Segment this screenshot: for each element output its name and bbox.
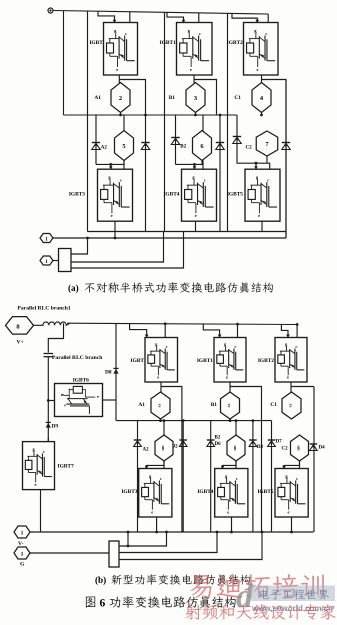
wire emitter branch (b) cell3	[291, 386, 314, 388]
diode A2 (b) left	[137, 421, 139, 532]
svg-text:D4: D4	[319, 446, 326, 451]
wire collector feed IGBT2 (b)	[296, 325, 298, 338]
wire cell3 left vertical (a)	[227, 13, 229, 231]
svg-text:C2: C2	[246, 145, 253, 150]
wire gate feed IGBT2 (b)	[281, 324, 288, 336]
svg-text:un: un	[161, 445, 166, 451]
svg-text:IGBT2: IGBT2	[258, 358, 274, 364]
wire gate feed IGBT	[98, 11, 115, 21]
wire demux out3 (b)	[119, 532, 262, 560]
svg-text:c: c	[234, 344, 236, 349]
node tag un cell2 (b)	[227, 435, 245, 461]
wire gate feed IGBT2	[232, 13, 257, 21]
node input tag 1 lower (a)	[40, 256, 53, 265]
diode B2 (b) left	[210, 421, 212, 532]
svg-text:c: c	[199, 31, 201, 36]
svg-text:C2: C2	[282, 446, 289, 451]
svg-text:IGBT5: IGBT5	[257, 489, 273, 495]
svg-text:IGBT5: IGBT5	[227, 191, 243, 197]
wire demux out2 (b)	[119, 532, 217, 553]
diode A2 (left freewheel cell1)	[95, 115, 97, 164]
diode D2 (b) right	[182, 421, 184, 532]
svg-text:IGBT3: IGBT3	[121, 489, 137, 495]
node tag 3 (gate pulse)	[186, 83, 205, 113]
wire demux riser (b)	[127, 532, 129, 546]
wire IGBT6 out to D8 column	[103, 399, 117, 401]
svg-text:e: e	[190, 67, 192, 72]
wire branch column to bus cell1 (b)	[181, 421, 183, 532]
diode C2 (left freewheel cell3)	[233, 136, 241, 138]
op-amp IGBT5 bottom row (b)	[275, 469, 308, 518]
wire demux out2 (a)	[71, 232, 184, 269]
wire bottom bus L2 (a)	[51, 237, 286, 239]
svg-text:e: e	[256, 67, 258, 72]
wire tag to demux (a)	[71, 238, 88, 254]
op-amp IGBT1 (IGBT block)	[177, 23, 213, 76]
wire emitter IGBT5 to bus (b)	[291, 517, 293, 532]
svg-text:B2: B2	[215, 436, 221, 441]
wire tag7 to IGBT5 gate	[266, 156, 268, 163]
wire emitter branch cell2	[194, 80, 217, 116]
svg-text:c: c	[43, 449, 45, 454]
wire RLC branch drop (b)	[48, 323, 63, 352]
svg-text:B1: B1	[211, 402, 218, 408]
wire right rail (b)	[313, 387, 315, 532]
svg-text:c: c	[166, 344, 168, 349]
svg-text:1: 1	[45, 236, 48, 242]
wire tag to IGBT5 gate (b)	[284, 461, 300, 467]
svg-text:cs: cs	[289, 404, 294, 408]
wire top rail (a)	[54, 11, 269, 15]
op-amp IGBT3 bottom row (b)	[139, 469, 172, 518]
svg-text:e: e	[111, 213, 113, 218]
svg-text:cs: cs	[158, 404, 163, 408]
wire branch column to bus cell2 (b)	[261, 421, 263, 532]
node tag 1 / G (b)	[14, 547, 30, 559]
svg-text:G: G	[20, 562, 25, 568]
svg-text:c: c	[265, 31, 267, 36]
wire collector column IGBT5 (b)	[299, 459, 301, 469]
label Parallel RLC branch	[53, 354, 55, 356]
wire collector feed IGBT2	[267, 14, 269, 22]
svg-text:IGBT2: IGBT2	[227, 40, 243, 46]
svg-text:e: e	[258, 213, 260, 218]
svg-text:IGBT1: IGBT1	[197, 358, 213, 364]
wire emitter IGBT (b)	[160, 382, 162, 393]
svg-text:IGBT: IGBT	[89, 40, 103, 46]
wire tag4 to mid rail	[261, 113, 263, 116]
wire tag3 to mid rail	[195, 113, 197, 116]
wire collector feed IGBT1 (b)	[237, 324, 239, 338]
wire bottom bus L1 (a)	[88, 231, 287, 233]
diode B2 (left freewheel cell2)	[175, 115, 177, 164]
diode D4 (b) right	[310, 443, 318, 445]
svg-text:A1: A1	[138, 402, 145, 408]
wire emitter IGBT1 (b)	[229, 382, 231, 393]
node tag 2 (gate pulse)	[111, 83, 130, 113]
node source tag 8 / V+	[6, 317, 34, 335]
watermark red slogan	[185, 604, 335, 620]
node tag 5 (gate pulse lower)	[123, 115, 125, 169]
capacitor parallel RLC branch	[44, 353, 54, 355]
wire mid-rail L to IGBT5 collector	[237, 115, 270, 169]
node tag 1 / V- (b)	[14, 526, 30, 538]
wire collector feed IGBT1	[198, 13, 200, 23]
wire tag A1 to mid rail (b)	[160, 419, 162, 421]
wire collector feed IGBT (b)	[164, 324, 166, 338]
node tag C1 sensor (b)	[282, 392, 301, 419]
demux block (b)	[109, 541, 119, 567]
svg-text:e: e	[287, 509, 289, 514]
wire tag to IGBT3 gate (b)	[147, 461, 165, 467]
wire emitter IGBT4	[195, 221, 197, 231]
wire emitter branch cell1	[119, 80, 145, 116]
wire collector column IGBT4 (b)	[235, 421, 237, 469]
svg-text:B1: B1	[169, 95, 176, 101]
demux block (a)	[59, 249, 72, 272]
wire emitter IGBT3	[114, 221, 116, 238]
wire lower tag to demux (a)	[53, 260, 59, 262]
node tag 6 (gate pulse lower)	[202, 115, 204, 169]
op-amp IGBT2 (IGBT block)	[244, 23, 279, 76]
wire tag B1 to mid rail (b)	[229, 419, 231, 421]
wire emitter branch cell3	[262, 80, 287, 239]
diode right rail cell3	[282, 142, 290, 144]
wire mid rail (b)	[116, 420, 272, 422]
svg-text:c: c	[295, 344, 297, 349]
diode D7 (b) left	[271, 421, 273, 532]
wire emitter branch (b) cell1	[161, 387, 182, 421]
svg-text:IGBT7: IGBT7	[58, 464, 74, 470]
diode right freewheel cell1	[145, 115, 147, 232]
op-amp IGBT3 (IGBT block)	[98, 169, 133, 221]
wire emitter IGBT3 to bus (b)	[156, 517, 158, 532]
svg-text:e: e	[35, 482, 37, 487]
svg-text:A2: A2	[101, 145, 108, 150]
svg-text:IGBT3: IGBT3	[69, 191, 85, 197]
wire collector feed IGBT	[129, 12, 131, 23]
inductor L1 (series RLC)	[34, 322, 71, 325]
wire diode-bottom to gate/collector cell1	[96, 163, 124, 165]
diode right freewheel cell2	[219, 115, 221, 232]
wire cell2 left vertical (a)	[164, 12, 166, 231]
watermark gray text eeworld	[250, 586, 335, 602]
wire emitter branch (b) cell2	[230, 387, 262, 421]
wire left rail (a)	[63, 11, 65, 115]
node tag A1 sensor (b)	[151, 392, 170, 419]
wire collector column IGBT3 (b)	[163, 421, 165, 469]
wire D8 column (b)	[115, 324, 117, 421]
node tag un cell1 (b)	[155, 435, 173, 461]
watermark red large text	[190, 574, 324, 599]
svg-text:e: e	[195, 213, 197, 218]
op-amp IGBT1 top row (b)	[214, 338, 246, 383]
wire demux out1 (a)	[71, 232, 164, 263]
node tag un cell3 (b)	[291, 435, 309, 461]
svg-text:2: 2	[119, 95, 122, 102]
wire demux out1 (b)	[119, 532, 167, 546]
svg-text:un: un	[297, 445, 302, 451]
svg-text:cs: cs	[227, 404, 232, 408]
wire G to demux (b)	[30, 552, 109, 554]
node tag 4 (gate pulse)	[252, 83, 271, 113]
wire tag6 to IGBT4 gate	[201, 161, 203, 165]
svg-text:A2: A2	[143, 448, 150, 453]
wire gate feed IGBT (b)	[130, 324, 147, 337]
svg-text:B2: B2	[180, 145, 186, 150]
caption figure 6	[86, 596, 96, 607]
svg-text:1: 1	[21, 531, 24, 537]
svg-text:IGBT1: IGBT1	[160, 40, 176, 46]
wire emitter IGBT1	[193, 75, 195, 83]
op-amp IGBT5 (IGBT block)	[245, 169, 280, 221]
wire mid rail (a)	[64, 114, 238, 116]
op-amp IGBT4 (IGBT block)	[182, 169, 217, 221]
wire V- bus (b)	[30, 531, 313, 533]
svg-text:Parallel RLC branch: Parallel RLC branch	[52, 355, 103, 361]
svg-text:IGBT6: IGBT6	[73, 378, 89, 384]
wire right rail (a)	[285, 80, 287, 239]
svg-text:Parallel RLC branch1: Parallel RLC branch1	[18, 306, 71, 312]
wire tag5 to IGBT3 gate	[123, 161, 125, 165]
svg-text:c: c	[204, 178, 206, 183]
op-amp IGBT (IGBT block)	[104, 23, 138, 76]
svg-text:(b): (b)	[95, 575, 106, 585]
svg-text:c: c	[236, 476, 238, 481]
svg-text:c: c	[160, 476, 162, 481]
svg-text:(a): (a)	[68, 283, 79, 293]
node input tag 1 upper (a)	[40, 234, 53, 243]
svg-text:6: 6	[100, 598, 106, 610]
svg-text:c: c	[267, 178, 269, 183]
wire emitter IGBT4 to bus (b)	[231, 517, 233, 532]
svg-text:c: c	[62, 404, 67, 406]
svg-text:D7: D7	[276, 440, 283, 445]
op-amp IGBT top row (b)	[145, 338, 178, 383]
diode D3 (b) right	[252, 421, 254, 532]
svg-text:e: e	[227, 509, 229, 514]
wire emitter IGBT2 (b)	[290, 382, 292, 393]
op-amp IGBT7 (IGBT block)	[23, 442, 55, 490]
svg-text:D3: D3	[257, 445, 264, 450]
svg-text:D8: D8	[105, 370, 112, 376]
wire cell1 left vertical (a)	[87, 11, 89, 231]
svg-text:e: e	[157, 375, 159, 380]
op-amp IGBT4 bottom row (b)	[215, 469, 248, 518]
svg-text:e: e	[116, 67, 118, 72]
svg-text:1: 1	[45, 259, 48, 265]
svg-text:e: e	[151, 509, 153, 514]
wire IGBT7 emitter to V- bus	[40, 490, 42, 532]
svg-text:e: e	[287, 375, 289, 380]
svg-text:V-: V-	[18, 541, 24, 547]
wire IGBT6 gate tap	[48, 400, 54, 402]
wire emitter IGBT	[118, 75, 120, 83]
svg-text:un: un	[233, 445, 238, 451]
wire tag2 to mid rail	[120, 113, 122, 116]
svg-text:C1: C1	[270, 402, 277, 408]
svg-text:IGBT: IGBT	[131, 358, 145, 364]
svg-text:e: e	[226, 375, 228, 380]
diode D9	[46, 421, 51, 423]
svg-text:c: c	[125, 31, 127, 36]
wire emitter IGBT5	[261, 221, 263, 231]
svg-text:IGBT4: IGBT4	[197, 489, 213, 495]
svg-text:c: c	[296, 476, 298, 481]
svg-text:D9: D9	[52, 424, 59, 430]
wire gate feed IGBT1 (b)	[203, 324, 219, 336]
watermark logo d	[236, 578, 254, 615]
wire tag to IGBT4 gate (b)	[223, 461, 237, 467]
wire diode-bottom to gate/collector cell2	[176, 163, 204, 165]
svg-text:V+: V+	[17, 340, 24, 346]
wire emitter IGBT2	[261, 75, 263, 83]
node tag 7 (gate pulse lower)	[256, 131, 278, 156]
svg-text:1: 1	[21, 552, 24, 558]
op-amp IGBT2 top row (b)	[275, 338, 307, 383]
svg-text:c: c	[120, 178, 122, 183]
svg-text:A1: A1	[94, 95, 101, 101]
node tag B1 sensor (b)	[221, 392, 240, 419]
wire top rail (b)	[67, 323, 297, 324]
svg-text:IGBT4: IGBT4	[163, 191, 179, 197]
svg-text:D6: D6	[215, 442, 222, 447]
node V source terminal (circuit a)	[48, 8, 53, 13]
svg-text:e: e	[95, 396, 100, 398]
svg-text:C1: C1	[234, 95, 241, 101]
wire gate feed IGBT1	[167, 12, 184, 21]
